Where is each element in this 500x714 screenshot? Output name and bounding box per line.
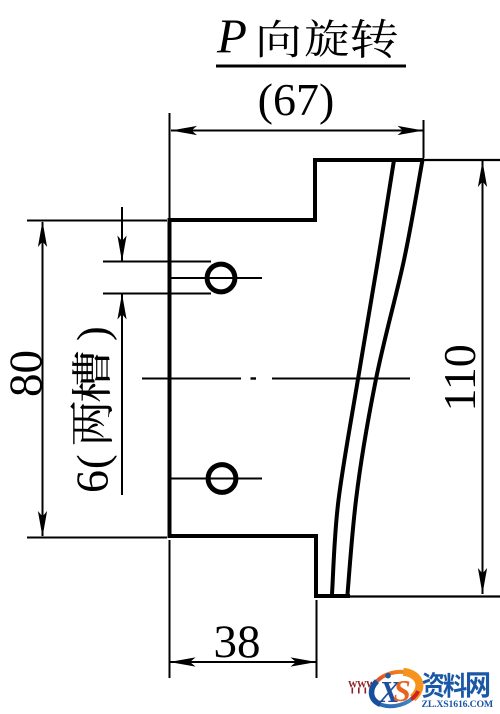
- svg-text:(: (: [69, 454, 118, 469]
- svg-text:S: S: [394, 673, 411, 708]
- svg-text:38: 38: [214, 616, 261, 668]
- svg-text:110: 110: [434, 344, 485, 411]
- svg-text:80: 80: [0, 350, 52, 397]
- svg-text:): ): [69, 326, 118, 341]
- svg-text:6: 6: [67, 470, 118, 493]
- svg-text:(67): (67): [258, 74, 335, 125]
- svg-text:P: P: [216, 9, 247, 64]
- svg-text:ZL.XS1616.COM: ZL.XS1616.COM: [422, 699, 493, 710]
